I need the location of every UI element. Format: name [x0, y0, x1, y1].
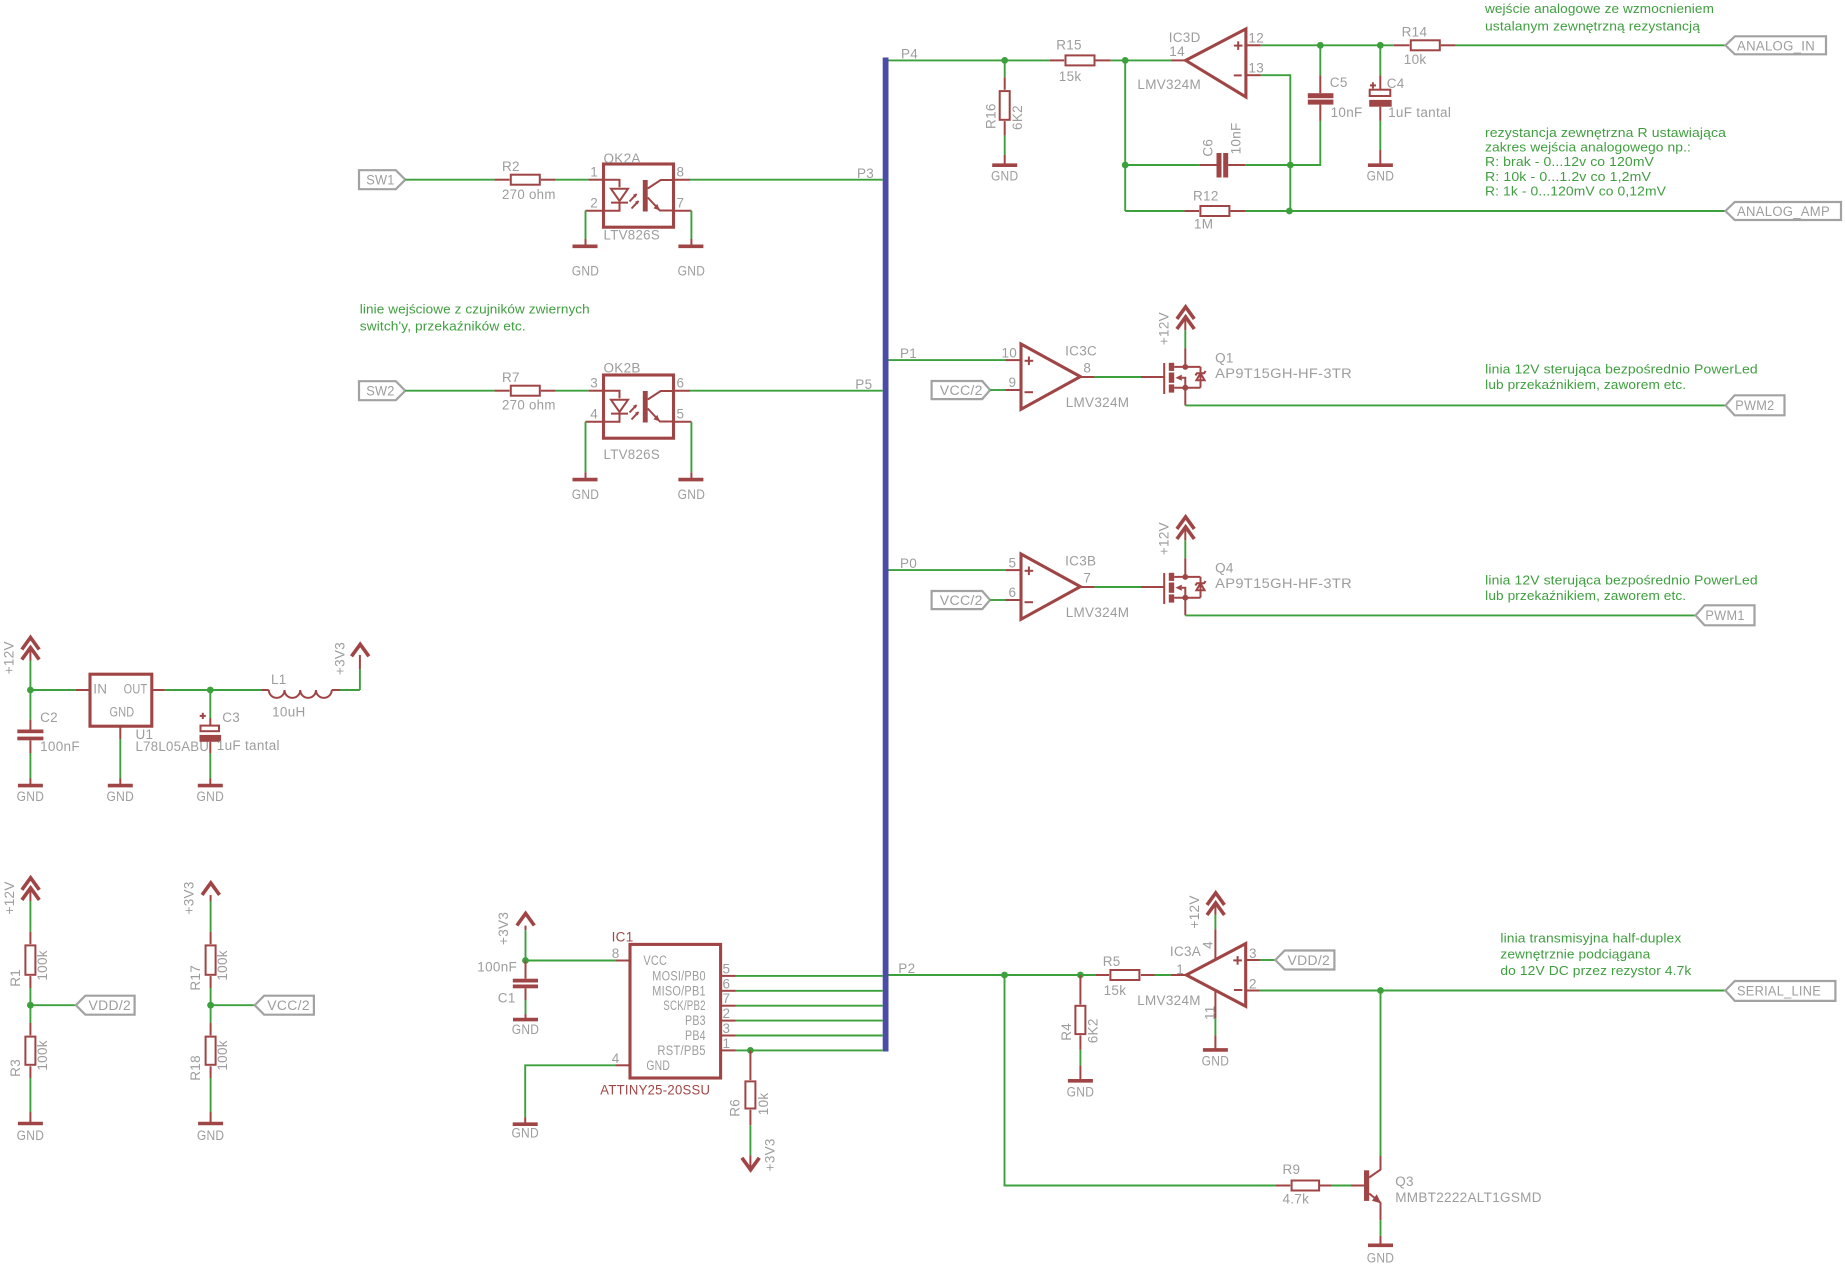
svg-text:5: 5 — [1008, 556, 1016, 571]
svg-text:P0: P0 — [900, 556, 917, 571]
supply +12V power input — [2, 638, 40, 691]
node P4/R16 junction — [1001, 57, 1008, 64]
svg-text:P4: P4 — [901, 46, 918, 61]
svg-text:R: brak - 0...12v co 120mV: R: brak - 0...12v co 120mV — [1485, 154, 1654, 169]
wire R2 to OK2A pin1 — [556, 179, 604, 181]
wire VCC/2 to IC3B pin6 — [990, 599, 1021, 601]
svg-text:6K2: 6K2 — [1086, 1018, 1101, 1043]
svg-text:6K2: 6K2 — [1010, 105, 1025, 130]
resistor R6 — [727, 1050, 771, 1155]
svg-text:6: 6 — [1008, 585, 1016, 600]
wire net P2 bus to R5 — [889, 974, 1096, 976]
svg-text:VCC: VCC — [643, 953, 667, 968]
wire IC1 pin1 RST/PB5 to bus — [721, 1036, 883, 1051]
capacitor C4 polarized — [1369, 45, 1451, 150]
svg-text:LMV324M: LMV324M — [1137, 77, 1201, 92]
svg-text:12: 12 — [1248, 30, 1264, 45]
ground GND OK2A right — [678, 239, 706, 278]
wire IC1 pin6 PB1 to bus — [721, 976, 883, 991]
svg-text:VDD/2: VDD/2 — [1288, 953, 1331, 968]
optocoupler OK2B — [590, 361, 684, 463]
wire R15 to IC3D output — [1111, 59, 1186, 61]
svg-text:Q1: Q1 — [1215, 350, 1234, 365]
svg-text:100k: 100k — [215, 1040, 230, 1070]
supply +3V3 above C1 — [496, 912, 534, 961]
svg-text:1: 1 — [1176, 962, 1184, 977]
wire IC3B output to Q4 gate — [1080, 586, 1164, 588]
svg-text:10uH: 10uH — [272, 705, 305, 720]
svg-text:8: 8 — [677, 165, 685, 180]
transistor Q1 MOSFET — [1164, 350, 1352, 394]
svg-text:VCC/2: VCC/2 — [267, 998, 310, 1013]
svg-text:GND: GND — [646, 1058, 670, 1073]
svg-text:R17: R17 — [188, 965, 203, 991]
op-amp IC3B — [1008, 554, 1129, 621]
wire R7 to OK2B pin3 — [556, 390, 604, 392]
wire pin13 down to C6 line — [1246, 75, 1290, 211]
svg-text:lub przekaźnikiem, zaworem etc: lub przekaźnikiem, zaworem etc. — [1485, 588, 1686, 603]
ground GND below C2 — [17, 779, 45, 804]
op-amp IC3D — [1137, 29, 1264, 97]
svg-text:P3: P3 — [857, 166, 874, 181]
ground GND below IC1 — [511, 1118, 539, 1141]
svg-text:4: 4 — [1201, 941, 1216, 949]
svg-text:do 12V DC przez rezystor 4.7k: do 12V DC przez rezystor 4.7k — [1500, 963, 1691, 978]
net flag PWM2 — [1726, 395, 1785, 415]
svg-text:RST/PB5: RST/PB5 — [657, 1043, 705, 1058]
label P3 — [857, 166, 874, 181]
wire IC3C output to Q1 gate — [1080, 376, 1164, 378]
svg-text:SW1: SW1 — [366, 173, 395, 188]
capacitor C6 — [1125, 122, 1290, 177]
svg-text:100nF: 100nF — [40, 739, 80, 754]
resistor R5 — [1095, 954, 1186, 998]
annotation text serial line — [1500, 930, 1691, 978]
svg-text:OK2B: OK2B — [604, 361, 641, 376]
svg-text:1: 1 — [590, 165, 598, 180]
svg-text:IC1: IC1 — [612, 930, 634, 945]
svg-text:LTV826S: LTV826S — [604, 447, 661, 462]
svg-text:1uF tantal: 1uF tantal — [1388, 105, 1451, 120]
svg-text:R15: R15 — [1056, 38, 1082, 53]
supply +12V above Q4 — [1156, 517, 1194, 577]
svg-text:R7: R7 — [502, 370, 520, 385]
inductor L1 — [210, 672, 360, 720]
wire Q1 source to PWM2 — [1185, 388, 1725, 406]
svg-text:15k: 15k — [1059, 69, 1082, 84]
svg-text:3: 3 — [723, 1021, 731, 1036]
svg-text:LTV826S: LTV826S — [604, 227, 661, 242]
node P2/feedback junction — [1001, 972, 1008, 979]
wire SW2 to R7 — [405, 390, 494, 392]
capacitor C5 — [1290, 45, 1362, 165]
svg-text:100k: 100k — [35, 1040, 50, 1070]
optocoupler OK2A — [590, 151, 684, 242]
svg-text:C3: C3 — [222, 710, 240, 725]
svg-text:VCC/2: VCC/2 — [940, 593, 983, 608]
wire OK2B pin5 to ground — [674, 422, 692, 473]
svg-text:linia transmisyjna half-duplex: linia transmisyjna half-duplex — [1500, 930, 1681, 945]
supply +3V3 divider right — [182, 881, 220, 932]
wire SW1 to R2 — [405, 179, 494, 181]
svg-text:10: 10 — [1001, 346, 1017, 361]
svg-text:9: 9 — [1008, 375, 1016, 390]
wire IC1 pin7 PB2 to bus — [721, 991, 883, 1006]
wire OK2B pin4 to ground — [586, 422, 604, 473]
resistor R7 — [495, 370, 556, 413]
supply +12V above Q1 — [1156, 307, 1194, 367]
svg-text:C6: C6 — [1201, 139, 1216, 157]
transistor Q3 NPN — [1364, 1169, 1542, 1205]
wire feedback P2 to R9 — [1005, 975, 1276, 1186]
svg-text:R4: R4 — [1059, 1023, 1074, 1041]
svg-text:SCK/PB2: SCK/PB2 — [663, 998, 706, 1013]
svg-text:P2: P2 — [898, 961, 915, 976]
svg-text:+3V3: +3V3 — [496, 912, 511, 945]
resistor R9 — [1276, 1162, 1364, 1207]
wire node to VCC/2 flag — [211, 1004, 255, 1006]
svg-text:IC3B: IC3B — [1065, 554, 1096, 569]
svg-text:4: 4 — [612, 1051, 620, 1066]
svg-text:linie wejściowe z czujników zw: linie wejściowe z czujników zwiernych — [360, 301, 590, 316]
node +12V/C2/U1 junction — [27, 687, 34, 694]
wire IC1 pin4 GND to ground — [525, 1065, 630, 1117]
svg-text:GND: GND — [572, 263, 600, 278]
svg-text:C4: C4 — [1387, 76, 1405, 91]
svg-text:GND: GND — [197, 1128, 225, 1143]
wire R12 to ANALOG_AMP — [1289, 210, 1725, 212]
svg-text:15k: 15k — [1104, 983, 1127, 998]
wire U1 OUT to node — [152, 689, 211, 691]
svg-text:ustalanym zewnętrzną rezystanc: ustalanym zewnętrzną rezystancją — [1485, 19, 1701, 34]
svg-text:10k: 10k — [756, 1093, 771, 1116]
svg-text:+3V3: +3V3 — [332, 642, 347, 675]
transistor Q4 MOSFET — [1164, 560, 1352, 604]
svg-text:ANALOG_IN: ANALOG_IN — [1737, 39, 1815, 54]
resistor R1 — [8, 932, 50, 1005]
svg-text:R9: R9 — [1283, 1162, 1301, 1177]
svg-text:4: 4 — [590, 407, 598, 422]
wire feedback left vertical — [1124, 60, 1126, 211]
node C6 left junction — [1122, 162, 1129, 169]
svg-text:8: 8 — [1083, 360, 1091, 375]
op-amp IC3C — [1001, 344, 1129, 411]
resistor R4 — [1059, 975, 1101, 1065]
svg-text:+12V: +12V — [2, 641, 17, 674]
svg-text:C1: C1 — [498, 991, 516, 1006]
svg-text:PWM2: PWM2 — [1735, 398, 1774, 413]
wire IC1 pin5 PB0 to bus — [721, 961, 883, 976]
ground GND OK2B right — [678, 472, 706, 502]
svg-text:IC3A: IC3A — [1170, 944, 1201, 959]
wire C1 node to IC1 pin8 — [526, 960, 631, 962]
net flag VCC/2 at IC3C — [932, 381, 991, 399]
node C4 top — [1377, 42, 1384, 49]
svg-text:GND: GND — [1202, 1053, 1230, 1068]
resistor R2 — [495, 159, 556, 202]
svg-text:VDD/2: VDD/2 — [89, 998, 132, 1013]
ground GND below Q3 — [1367, 1236, 1395, 1266]
label P5 — [855, 377, 872, 392]
annotation text input lines — [360, 301, 590, 333]
svg-text:GND: GND — [572, 487, 600, 502]
svg-text:R18: R18 — [188, 1055, 203, 1081]
svg-text:13: 13 — [1248, 61, 1264, 76]
resistor R16 — [983, 60, 1025, 155]
svg-text:R16: R16 — [983, 103, 998, 129]
svg-text:R1: R1 — [8, 969, 23, 987]
supply +3V3 below R6 — [742, 1138, 778, 1171]
wire Q3 emitter to ground — [1380, 1203, 1382, 1236]
svg-text:GND: GND — [197, 789, 225, 804]
node C1/+3V3/IC1 VCC junction — [522, 957, 529, 964]
ground GND below U1 — [107, 779, 135, 804]
wire R14 to ANALOG_IN — [1456, 44, 1726, 46]
wire U1 GND pin to ground — [119, 726, 121, 778]
svg-text:3: 3 — [1249, 946, 1257, 961]
svg-text:OK2A: OK2A — [604, 151, 641, 166]
ground GND OK2B left — [572, 472, 600, 502]
ground GND below R4 — [1067, 1065, 1095, 1099]
svg-text:10nF: 10nF — [1229, 122, 1244, 154]
svg-text:+12V: +12V — [1187, 895, 1202, 928]
svg-text:+12V: +12V — [2, 881, 17, 914]
wire VCC/2 to IC3C pin9 — [990, 389, 1021, 391]
svg-text:GND: GND — [678, 487, 706, 502]
net flag VDD/2 — [76, 996, 135, 1015]
svg-text:GND: GND — [512, 1022, 540, 1037]
svg-text:4.7k: 4.7k — [1283, 1192, 1310, 1207]
svg-text:GND: GND — [1067, 1085, 1095, 1100]
svg-text:100k: 100k — [35, 950, 50, 980]
svg-text:R12: R12 — [1193, 189, 1219, 204]
svg-text:GND: GND — [17, 1128, 45, 1143]
node R4 junction — [1077, 972, 1084, 979]
supply +12V divider left — [2, 878, 39, 932]
svg-text:AP9T15GH-HF-3TR: AP9T15GH-HF-3TR — [1215, 366, 1352, 381]
svg-text:1M: 1M — [1194, 216, 1213, 231]
wire net P3 OK2A pin8 to bus — [674, 179, 883, 181]
svg-text:IC3D: IC3D — [1169, 30, 1201, 45]
annotation text PWM1 — [1485, 573, 1758, 604]
net flag SW2 — [359, 381, 405, 400]
microcontroller IC1 — [600, 930, 720, 1098]
svg-text:GND: GND — [991, 168, 1019, 183]
svg-text:R: 1k - 0...120mV co 0,12mV: R: 1k - 0...120mV co 0,12mV — [1485, 183, 1666, 198]
net flag VDD/2 at IC3A — [1246, 951, 1335, 970]
svg-text:+12V: +12V — [1156, 312, 1171, 345]
svg-text:7: 7 — [723, 991, 731, 1006]
svg-text:Q3: Q3 — [1395, 1174, 1414, 1189]
svg-text:lub przekaźnikiem, zaworem etc: lub przekaźnikiem, zaworem etc. — [1485, 377, 1686, 392]
svg-text:LMV324M: LMV324M — [1137, 993, 1201, 1008]
svg-text:rezystancja zewnętrzna R usta: rezystancja zewnętrzna R ustawiająca — [1485, 125, 1727, 140]
svg-text:MISO/PB1: MISO/PB1 — [652, 984, 706, 999]
ground GND below R3 — [17, 1112, 45, 1143]
svg-text:zewnętrznie podciągana: zewnętrznie podciągana — [1500, 946, 1651, 961]
svg-text:zakres wejścia analogowego np.: zakres wejścia analogowego np.: — [1485, 140, 1691, 155]
wire IC3A pin2 to SERIAL_LINE — [1246, 990, 1726, 992]
svg-text:C2: C2 — [40, 710, 58, 725]
svg-text:P5: P5 — [855, 377, 872, 392]
svg-text:AP9T15GH-HF-3TR: AP9T15GH-HF-3TR — [1215, 576, 1352, 591]
node output/feedback junction — [1122, 57, 1129, 64]
capacitor C3 polarized — [200, 690, 280, 779]
svg-text:6: 6 — [723, 976, 731, 991]
resistor R3 — [8, 1005, 50, 1112]
node VCC/2 junction — [207, 1002, 214, 1009]
wire OK2A pin7 to ground — [674, 211, 692, 239]
svg-text:SERIAL_LINE: SERIAL_LINE — [1737, 984, 1821, 999]
annotation text PWM2 — [1485, 361, 1758, 392]
annotation text analog input — [1484, 1, 1714, 34]
wire OK2A pin2 to ground — [586, 211, 604, 239]
svg-text:R: 10k - 0...1.2v co 1,2mV: R: 10k - 0...1.2v co 1,2mV — [1485, 169, 1651, 184]
svg-text:2: 2 — [723, 1006, 731, 1021]
voltage regulator U1 — [90, 674, 209, 754]
svg-text:GND: GND — [110, 704, 135, 719]
label P4 — [901, 46, 918, 61]
wire IC1 pin2 PB3 to bus — [721, 1006, 883, 1021]
svg-text:L1: L1 — [271, 672, 287, 687]
svg-text:LMV324M: LMV324M — [1066, 395, 1130, 410]
net flag VCC/2 at IC3B — [932, 591, 991, 609]
svg-text:R6: R6 — [727, 1099, 742, 1117]
svg-text:7: 7 — [677, 196, 685, 211]
net flag ANALOG_IN — [1725, 36, 1826, 54]
label P0 — [900, 556, 917, 571]
svg-text:3: 3 — [590, 376, 598, 391]
supply +12V above IC3A — [1187, 893, 1224, 959]
svg-text:1: 1 — [723, 1036, 731, 1051]
node RST/R6 junction — [747, 1047, 754, 1054]
ground GND below C1 — [512, 1014, 540, 1037]
node C5 top — [1317, 42, 1324, 49]
svg-text:1uF tantal: 1uF tantal — [217, 738, 280, 753]
svg-text:+3V3: +3V3 — [763, 1138, 778, 1171]
node Q3 collector junction — [1377, 987, 1384, 994]
svg-text:ATTINY25-20SSU: ATTINY25-20SSU — [600, 1083, 710, 1098]
svg-text:R3: R3 — [8, 1059, 23, 1077]
svg-text:GND: GND — [511, 1125, 539, 1140]
wire net P5 OK2B pin6 to bus — [674, 390, 883, 392]
svg-text:C5: C5 — [1330, 75, 1348, 90]
svg-text:7: 7 — [1083, 570, 1091, 585]
ground GND OK2A left — [572, 239, 600, 278]
label P1 — [900, 346, 917, 361]
capacitor C2 — [17, 690, 80, 779]
svg-text:GND: GND — [678, 263, 706, 278]
net flag PWM1 — [1696, 605, 1755, 625]
svg-text:linia 12V sterująca bezpośredn: linia 12V sterująca bezpośrednio PowerLe… — [1485, 573, 1758, 588]
svg-text:IC3C: IC3C — [1065, 344, 1097, 359]
net flag ANALOG_AMP — [1725, 202, 1841, 220]
svg-text:+12V: +12V — [1156, 522, 1171, 555]
svg-text:Q4: Q4 — [1215, 560, 1234, 575]
svg-text:IN: IN — [93, 682, 107, 697]
annotation text resistance ranges — [1485, 125, 1727, 198]
wire IC3A pin11 to ground — [1214, 991, 1216, 1036]
wire pin12 to C5/C4/R14 — [1246, 44, 1394, 46]
node R12 right junction — [1286, 208, 1293, 215]
svg-text:R14: R14 — [1402, 24, 1428, 39]
svg-text:100nF: 100nF — [477, 960, 517, 975]
svg-text:10k: 10k — [1404, 52, 1427, 67]
node U1 OUT / C3 / L1 junction — [207, 687, 214, 694]
svg-text:MOSI/PB0: MOSI/PB0 — [652, 968, 706, 983]
svg-text:+3V3: +3V3 — [182, 881, 197, 914]
svg-text:14: 14 — [1169, 44, 1185, 59]
resistor R12 — [1125, 189, 1289, 232]
svg-text:P1: P1 — [900, 346, 917, 361]
svg-text:wejście analogowe ze wzmocnien: wejście analogowe ze wzmocnieniem — [1484, 1, 1714, 16]
net flag SERIAL_LINE — [1725, 981, 1835, 1001]
label P2 — [898, 961, 915, 976]
node C6 right junction — [1287, 162, 1294, 169]
svg-text:SW2: SW2 — [366, 384, 395, 399]
ground GND below C3 — [197, 779, 225, 804]
resistor R14 — [1394, 24, 1456, 67]
ground GND below R16 — [991, 155, 1019, 183]
svg-text:VCC/2: VCC/2 — [940, 383, 983, 398]
svg-text:R2: R2 — [502, 159, 520, 174]
wire net P0 bus to IC3B — [889, 569, 1022, 571]
wire Q4 source to PWM1 — [1185, 598, 1695, 616]
svg-text:LMV324M: LMV324M — [1066, 605, 1130, 620]
svg-text:GND: GND — [17, 789, 45, 804]
svg-text:6: 6 — [677, 376, 685, 391]
svg-text:L78L05ABU: L78L05ABU — [136, 739, 210, 754]
svg-text:100k: 100k — [215, 950, 230, 980]
capacitor C1 — [477, 960, 538, 1015]
ground GND below IC3A — [1202, 1035, 1230, 1068]
node VDD/2 junction — [27, 1002, 34, 1009]
net flag VCC/2 — [255, 996, 314, 1015]
resistor R17 — [188, 932, 230, 1005]
svg-text:8: 8 — [612, 946, 620, 961]
resistor R18 — [188, 1005, 230, 1112]
op-amp IC3A — [1137, 941, 1257, 1020]
svg-text:R5: R5 — [1103, 954, 1121, 969]
svg-text:270 ohm: 270 ohm — [502, 187, 556, 202]
wire net P4 from bus to R15 — [889, 59, 1050, 61]
wire Q3 collector to SERIAL_LINE — [1380, 991, 1382, 1170]
supply +3V3 after L1 — [332, 642, 368, 690]
svg-text:PB3: PB3 — [685, 1013, 706, 1028]
svg-text:5: 5 — [723, 961, 731, 976]
wire IC1 pin3 PB4 to bus — [721, 1021, 883, 1036]
svg-text:linia 12V sterująca bezpośredn: linia 12V sterująca bezpośrednio PowerLe… — [1485, 361, 1758, 376]
svg-text:MMBT2222ALT1GSMD: MMBT2222ALT1GSMD — [1395, 1190, 1542, 1205]
ground GND below C4 — [1367, 150, 1395, 183]
svg-text:ANALOG_AMP: ANALOG_AMP — [1737, 204, 1830, 219]
svg-text:PWM1: PWM1 — [1705, 608, 1744, 623]
svg-text:2: 2 — [1249, 977, 1257, 992]
wire node to VDD/2 flag — [30, 1004, 76, 1006]
svg-text:PB4: PB4 — [685, 1028, 706, 1043]
bus P[0..5] — [883, 58, 889, 1052]
resistor R15 — [1050, 38, 1111, 84]
ground GND below R18 — [197, 1112, 225, 1143]
net flag SW1 — [359, 170, 405, 189]
svg-text:GND: GND — [1367, 168, 1395, 183]
svg-text:OUT: OUT — [124, 682, 148, 697]
svg-text:GND: GND — [1367, 1250, 1395, 1265]
svg-text:5: 5 — [677, 407, 685, 422]
svg-text:10nF: 10nF — [1331, 105, 1363, 120]
wire +12V to U1 IN — [30, 689, 90, 691]
svg-text:GND: GND — [107, 789, 135, 804]
